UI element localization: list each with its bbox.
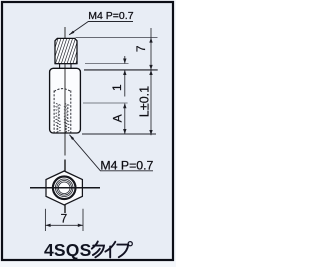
svg-text:M4 P=0.7: M4 P=0.7 <box>100 158 153 172</box>
svg-text:M4 P=0.7: M4 P=0.7 <box>88 10 133 22</box>
svg-text:1: 1 <box>110 84 124 91</box>
internal thread coil symbol <box>56 104 69 134</box>
page background <box>0 0 176 267</box>
neck below stud <box>55 64 77 69</box>
svg-text:7: 7 <box>134 45 148 52</box>
svg-text:A: A <box>110 114 124 122</box>
svg-text:L±0.1: L±0.1 <box>137 86 151 117</box>
center line (vertical axis of part) <box>64 27 66 213</box>
hex width dimension "7" <box>45 209 83 231</box>
dimension line x=124.8 : "1" and "A" <box>124 56 126 134</box>
katakana タ <box>92 242 104 258</box>
svg-text:4SQS: 4SQS <box>44 240 92 260</box>
hex end view <box>30 171 100 205</box>
dimension line x=151 : "7" and "L±0.1" <box>150 28 152 135</box>
katakana イ <box>105 242 115 258</box>
svg-text:7: 7 <box>60 212 67 226</box>
katakana プ <box>117 242 132 258</box>
panel box <box>2 2 173 260</box>
extension lines right side <box>76 38 158 134</box>
body (hex standoff side view) <box>50 68 81 133</box>
hidden tapped hole (dashed) <box>54 89 71 133</box>
center line redraw over body <box>64 68 66 133</box>
stud M4 top (threaded) <box>46 36 94 66</box>
